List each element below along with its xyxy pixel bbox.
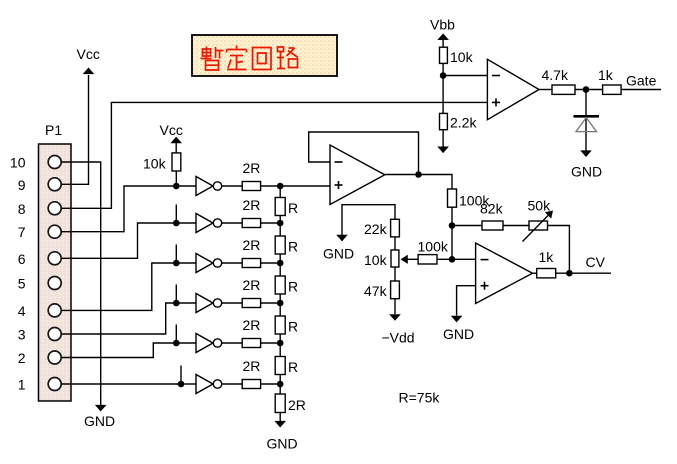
svg-text:22k: 22k bbox=[364, 221, 388, 237]
wire op-amp plus to GND bbox=[457, 286, 476, 316]
pin 4 circle bbox=[48, 304, 61, 317]
title box bbox=[192, 35, 337, 76]
resistor R (4-5) bbox=[275, 316, 298, 335]
svg-text:CV: CV bbox=[586, 254, 606, 270]
svg-text:4: 4 bbox=[18, 303, 26, 319]
wire pin9 to Vcc bbox=[61, 75, 89, 184]
svg-text:82k: 82k bbox=[480, 201, 504, 217]
node buffer output bbox=[415, 171, 422, 178]
GND symbol ladder bottom bbox=[267, 421, 298, 452]
op-amp U9 minus label bbox=[492, 75, 500, 77]
op-amp U7 buffer bbox=[330, 145, 385, 205]
wire comparator output bbox=[539, 89, 552, 91]
回 bbox=[253, 48, 272, 70]
node Vbb divider bbox=[440, 72, 447, 79]
svg-text:1: 1 bbox=[18, 377, 26, 393]
resistor R (2-3) bbox=[275, 236, 298, 255]
wire node to 82k bbox=[452, 225, 482, 227]
svg-text:2R: 2R bbox=[288, 397, 306, 413]
pin 5 circle bbox=[48, 277, 61, 290]
node bit5 bbox=[173, 340, 180, 347]
node CV bbox=[566, 270, 573, 277]
GND symbol below P1 bbox=[84, 405, 115, 429]
svg-text:2R: 2R bbox=[243, 160, 261, 176]
wire pin7 to bit1 node bbox=[61, 186, 176, 232]
GND symbol op-amp U8 bbox=[443, 316, 474, 342]
potentiometer 10k bbox=[364, 250, 399, 281]
svg-text:R: R bbox=[288, 279, 298, 295]
svg-text:Vcc: Vcc bbox=[77, 46, 100, 62]
node gate bbox=[583, 86, 590, 93]
svg-text:3: 3 bbox=[18, 327, 26, 343]
resistor 1k CV bbox=[533, 249, 570, 278]
node bit4 bbox=[173, 300, 180, 307]
svg-text:10: 10 bbox=[10, 155, 26, 171]
wire pin4 to bit3 node bbox=[61, 263, 176, 310]
定 bbox=[227, 46, 247, 70]
svg-text:GND: GND bbox=[323, 246, 354, 262]
-Vdd symbol bbox=[382, 314, 415, 345]
node ladder4 bbox=[277, 300, 284, 307]
svg-text:2R: 2R bbox=[243, 277, 261, 293]
svg-text:2R: 2R bbox=[243, 358, 261, 374]
暫 bbox=[201, 47, 224, 71]
svg-text:GND: GND bbox=[443, 326, 474, 342]
wire pin8 to comparator + input bbox=[61, 102, 487, 208]
svg-text:10k: 10k bbox=[364, 252, 388, 268]
wire pin10 to GND bbox=[61, 162, 101, 405]
inverter U4 (bit4) bbox=[176, 285, 242, 313]
svg-text:1k: 1k bbox=[598, 67, 614, 83]
svg-text:10k: 10k bbox=[143, 156, 167, 172]
svg-text:P1: P1 bbox=[45, 122, 62, 138]
connector P1 body bbox=[39, 144, 72, 401]
node ladder3 bbox=[277, 260, 284, 267]
op-amp U7 plus label bbox=[335, 181, 343, 189]
wire buffer feedback bbox=[309, 132, 419, 175]
wire pin3 to bit4 node bbox=[61, 303, 176, 334]
svg-text:10k: 10k bbox=[450, 49, 474, 65]
wire Vcc to R pull-up bbox=[175, 143, 177, 153]
op-amp U8 plus label bbox=[481, 282, 489, 290]
路 bbox=[277, 47, 298, 69]
svg-text:4.7k: 4.7k bbox=[542, 67, 569, 83]
inverter U2 (bit2) bbox=[176, 205, 242, 233]
wire CV output bbox=[569, 272, 611, 274]
node bit2 bbox=[173, 220, 180, 227]
resistor 2R terminator bbox=[275, 394, 306, 421]
wire 10k to bit1 node bbox=[175, 171, 177, 186]
resistor 2R row1 bbox=[242, 160, 280, 191]
resistor 10k Vbb bbox=[440, 47, 474, 113]
pin 2 circle bbox=[48, 351, 61, 364]
resistor 2R row6 bbox=[242, 358, 280, 389]
node ladder1 bbox=[277, 183, 284, 190]
node bit6 bbox=[178, 381, 185, 388]
resistor 1k gate bbox=[598, 67, 661, 94]
resistor R (5-6) bbox=[275, 357, 298, 376]
svg-text:6: 6 bbox=[18, 251, 26, 267]
svg-text:8: 8 bbox=[18, 201, 26, 217]
svg-text:Vcc: Vcc bbox=[160, 122, 183, 138]
resistor 22k bbox=[364, 219, 399, 250]
svg-text:100k: 100k bbox=[418, 239, 449, 255]
svg-text:Vbb: Vbb bbox=[430, 17, 455, 33]
resistor 10k pull-up bbox=[143, 153, 181, 186]
pin 10 circle bbox=[48, 156, 61, 169]
wire node to comparator minus bbox=[443, 75, 487, 77]
svg-text:GND: GND bbox=[267, 436, 298, 452]
pin 1 circle bbox=[48, 378, 61, 391]
resistor 4.7k bbox=[542, 67, 603, 94]
svg-text:R: R bbox=[288, 359, 298, 375]
svg-text:−Vdd: −Vdd bbox=[382, 330, 415, 346]
svg-text:R: R bbox=[288, 239, 298, 255]
svg-text:1k: 1k bbox=[539, 249, 555, 265]
resistor 2R row5 bbox=[242, 317, 280, 348]
resistor 2.2k bbox=[440, 113, 478, 146]
op-amp U8 minus label bbox=[481, 259, 489, 261]
resistor 82k bbox=[480, 201, 529, 231]
svg-text:2R: 2R bbox=[243, 317, 261, 333]
pin 3 circle bbox=[48, 328, 61, 341]
svg-text:2R: 2R bbox=[243, 237, 261, 253]
node feedback top bbox=[449, 222, 456, 229]
op-amp U8 CV bbox=[476, 243, 533, 304]
node ladder2 bbox=[277, 220, 284, 227]
inverter U6 (bit6) bbox=[181, 366, 242, 394]
svg-text:Gate: Gate bbox=[626, 73, 657, 89]
svg-text:2R: 2R bbox=[243, 197, 261, 213]
divider top wire bbox=[342, 205, 395, 241]
GND symbol divider bbox=[323, 235, 354, 262]
node ladder5 bbox=[277, 340, 284, 347]
wire pin1 to bit6 node bbox=[61, 383, 181, 385]
negative rail arrow below 2.2k bbox=[437, 147, 449, 154]
svg-text:9: 9 bbox=[18, 177, 26, 193]
title text 暫定回路 (drawn strokes) bbox=[201, 46, 299, 71]
Vbb symbol bbox=[430, 17, 455, 48]
inverter U1 (bit1) bbox=[176, 177, 242, 196]
svg-text:GND: GND bbox=[571, 164, 602, 180]
resistor 100k vertical bbox=[448, 189, 491, 259]
inverter U3 (bit3) bbox=[176, 245, 242, 273]
svg-text:R: R bbox=[288, 319, 298, 335]
node bit3 bbox=[173, 260, 180, 267]
resistor 2R row4 bbox=[242, 277, 280, 308]
wire pin2 to bit5 node bbox=[61, 343, 176, 358]
op-amp U7 minus label bbox=[335, 161, 343, 163]
resistor 100k wiper bbox=[401, 239, 453, 265]
GND symbol diode bbox=[571, 150, 602, 179]
svg-text:47k: 47k bbox=[364, 283, 388, 299]
pin 8 circle bbox=[48, 202, 61, 215]
op-amp U9 comparator bbox=[487, 59, 539, 119]
wire node to op-amp minus bbox=[452, 258, 476, 260]
svg-text:R=75k: R=75k bbox=[399, 390, 441, 406]
wire ladder to buffer + input bbox=[280, 185, 330, 187]
node inverting input bbox=[449, 256, 456, 263]
svg-text:2: 2 bbox=[18, 350, 26, 366]
resistor 47k bbox=[364, 281, 399, 314]
resistor 2R row2 bbox=[242, 197, 280, 228]
svg-text:50k: 50k bbox=[528, 198, 552, 214]
node bit1 bbox=[173, 183, 180, 190]
inverter U5 (bit5) bbox=[176, 325, 242, 353]
pin 7 circle bbox=[48, 225, 61, 238]
Vcc symbol left bbox=[77, 46, 100, 74]
diode D1 bbox=[574, 90, 600, 151]
wire buffer output bbox=[385, 175, 452, 190]
wire 50k to CV node bbox=[548, 226, 570, 274]
pin 6 circle bbox=[48, 252, 61, 265]
resistor 2R row3 bbox=[242, 237, 280, 268]
svg-text:7: 7 bbox=[18, 224, 26, 240]
svg-text:5: 5 bbox=[18, 276, 26, 292]
op-amp U9 plus label bbox=[492, 98, 500, 106]
node ladder6 bbox=[277, 381, 284, 388]
Vcc symbol at ladder pull-up bbox=[160, 122, 183, 153]
pin 9 circle bbox=[48, 178, 61, 191]
wire pin6 to bit2 node bbox=[61, 223, 176, 258]
svg-text:R: R bbox=[288, 200, 298, 216]
svg-text:GND: GND bbox=[84, 413, 115, 429]
resistor R (1-2) bbox=[275, 198, 298, 217]
potentiometer 50k bbox=[523, 198, 570, 274]
resistor R (3-4) bbox=[275, 276, 298, 295]
svg-text:2.2k: 2.2k bbox=[450, 115, 477, 131]
ladder bus wire bbox=[279, 186, 281, 394]
